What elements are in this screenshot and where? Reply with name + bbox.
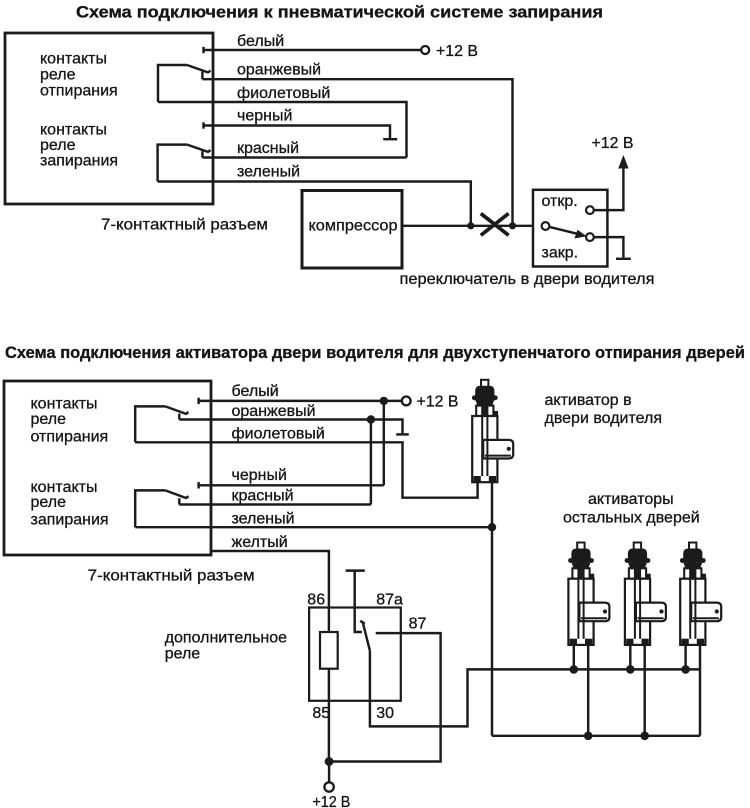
relay box (дополнительное реле) [309,608,401,701]
switch arm with arrowhead to закр [550,227,580,234]
wire красный (bottom) [179,503,371,505]
cut mark X on wire [481,214,509,236]
actuator 1 wires [573,645,575,670]
wire фиолетовый (top): joins красный via drop at x=406.5 [158,102,407,158]
wire зеленый (top): drops to compressor line [158,182,471,226]
svg-text:закр.: закр. [542,245,579,262]
svg-text:двери водителя: двери водителя [545,410,663,427]
svg-text:7-контактный разъем: 7-контактный разъем [101,217,268,234]
svg-text:оранжевый: оранжевый [232,403,316,420]
actuator 2 wires [629,645,631,670]
relay contact symbol: запирания (changeover) [201,151,203,157]
svg-text:активаторы: активаторы [588,491,674,508]
svg-text:контакты: контакты [40,122,107,139]
relay switch arm [360,621,365,624]
driver actuator right wire down to lower bus [491,482,493,736]
junction node +12 [325,757,334,766]
switch common terminal [542,222,550,230]
wire link белый-черный (vertical x=383.8) [383,401,385,485]
wire компрессор to switch [402,225,533,227]
svg-text:дополнительное: дополнительное [165,630,287,647]
svg-text:Схема подключения к пневматиче: Схема подключения к пневматической систе… [76,4,603,22]
relay contact symbol: отпирания (bottom) [178,414,180,420]
junction nodes upper bus [570,665,579,674]
закр terminal [586,233,594,241]
svg-text:фиолетовый: фиолетовый [232,426,325,443]
svg-text:черный: черный [237,108,292,125]
junction node зеленый/actuator [488,523,496,531]
87a stub with bar [355,571,362,632]
wire закр to ground [594,237,623,258]
svg-text:85: 85 [312,705,330,722]
svg-text:+12 В: +12 В [592,135,634,152]
wire белый (bottom) to +12 В [197,398,199,404]
actuator driver door [472,380,513,482]
svg-text:реле: реле [165,646,201,663]
svg-text:красный: красный [237,140,299,157]
junction node (orange drop) [509,222,516,229]
svg-text:87а: 87а [376,592,403,609]
svg-text:запирания: запирания [31,512,109,529]
wire желтый: to relay coil 86 [211,551,329,608]
wire красный (top) [202,156,406,158]
coil wire 86/85 vertical [328,608,330,633]
svg-text:фиолетовый: фиолетовый [237,85,330,102]
connector box (7-pin), bottom section [4,381,211,555]
откр terminal [586,206,594,214]
svg-text:переключатель в двери водителя: переключатель в двери водителя [400,271,655,288]
svg-text:реле: реле [31,494,67,511]
svg-text:оранжевый: оранжевый [237,62,321,79]
wire зеленый (bottom): to driver actuator right wire [135,526,492,528]
junction nodes lower bus [584,732,593,741]
svg-text:откр.: откр. [542,193,578,210]
svg-text:белый: белый [232,383,279,400]
svg-text:отпирания: отпирания [31,429,109,446]
svg-text:контакты: контакты [40,51,107,68]
wire черный (top) with ground bar [202,122,204,128]
svg-text:остальных дверей: остальных дверей [563,510,700,527]
svg-text:86: 86 [307,592,325,609]
svg-text:+12 В: +12 В [417,394,459,411]
terminal +12 В circle (white wire) [421,46,429,54]
actuator other door 3 [680,543,721,645]
junction node on оранжевый [367,415,375,423]
svg-text:+12 В: +12 В [436,43,478,60]
svg-text:черный: черный [232,467,287,484]
svg-text:реле: реле [40,137,76,154]
svg-text:белый: белый [237,33,284,50]
wire откр to +12 В arrow [594,166,623,210]
svg-text:запирания: запирания [40,153,118,170]
svg-text:реле: реле [40,67,76,84]
svg-text:30: 30 [376,705,394,722]
svg-text:красный: красный [232,488,294,505]
svg-text:отпирания: отпирания [40,82,118,99]
junction node on белый [380,397,388,405]
svg-text:желтый: желтый [232,534,288,551]
svg-text:7-контактный разъем: 7-контактный разъем [88,568,255,585]
wire белый (top) [202,47,204,53]
connector box (7-pin), top section [5,33,213,204]
svg-text:зеленый: зеленый [237,164,300,181]
wire оранжевый (bottom) to ground [179,420,402,434]
svg-text:+12 В: +12 В [312,794,350,808]
svg-text:компрессор: компрессор [309,218,398,235]
svg-text:реле: реле [31,411,67,428]
relay contact symbol: запирания (bottom) [178,498,180,504]
svg-text:Схема подключения активатора д: Схема подключения активатора двери водит… [5,344,745,362]
relay contact symbol: отпирания (changeover) [201,72,203,80]
actuator 3 wires [684,645,686,670]
upper actuator bus (from relay 30) [370,669,700,726]
+12 В terminal at bottom [328,762,330,783]
terminal +12 В circle (bottom white wire) [402,397,411,406]
svg-text:зеленый: зеленый [232,511,295,528]
svg-text:активатор в: активатор в [545,392,632,409]
svg-text:87: 87 [409,616,427,633]
actuator other door 1 [568,543,609,645]
relay coil [320,632,338,669]
wire link оранжевый-красный (vertical x=370.9) [370,420,372,505]
actuator other door 2 [625,543,666,645]
junction node (green drop) [467,222,474,229]
87 wire to +12 node [329,633,441,761]
lower actuator bus [492,735,700,737]
svg-text:контакты: контакты [31,396,98,413]
компрессор box [302,191,402,269]
wire черный (bottom) [197,482,199,488]
switch box (переключатель в двери водителя) [533,190,607,267]
wire оранжевый (top): to vertical drop at x=512.5 [202,79,512,226]
wire фиолетовый (bottom): to driver actuator left terminal [135,442,477,497]
